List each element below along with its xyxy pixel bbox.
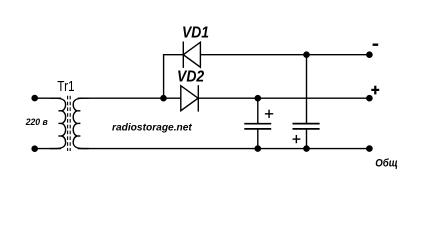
label plus xyxy=(371,86,379,95)
capacitor C2 plates xyxy=(293,124,320,129)
svg-text:Tr1: Tr1 xyxy=(57,79,74,95)
transformer Tr1 secondary winding xyxy=(73,98,89,148)
terminal dot common xyxy=(366,145,373,152)
capacitor C1 plates xyxy=(244,124,271,129)
terminal dot minus xyxy=(366,51,373,58)
wire middle rail VD2 to plus terminal xyxy=(198,97,369,99)
capacitor C2 polarity plus xyxy=(293,135,301,143)
wire vertical riser node A to top rail xyxy=(164,55,184,98)
capacitor C1 polarity plus xyxy=(265,110,273,118)
svg-text:Общ: Общ xyxy=(375,158,398,170)
svg-text:VD1: VD1 xyxy=(182,24,209,41)
diode VD1 xyxy=(183,42,200,68)
svg-text:VD2: VD2 xyxy=(177,69,205,86)
wire top rail VD1 to minus terminal xyxy=(200,54,369,56)
terminal dot 220V top xyxy=(31,95,38,102)
capacitor C1 bottom lead xyxy=(257,129,259,149)
terminal dot 220V bottom xyxy=(31,145,38,152)
transformer core xyxy=(68,96,71,151)
wire primary top lead xyxy=(35,97,61,99)
wire bottom rail xyxy=(78,148,370,150)
capacitor C2 bottom lead xyxy=(306,129,308,149)
capacitor C1 top junction dot xyxy=(254,95,261,102)
diode VD2 xyxy=(181,85,199,111)
capacitor C2 bottom junction dot xyxy=(303,145,310,152)
capacitor C2 top junction dot xyxy=(303,51,310,58)
terminal dot plus xyxy=(366,95,373,102)
capacitor C2 top lead xyxy=(306,55,308,124)
wire primary bottom lead xyxy=(35,148,61,150)
svg-text:radiostorage.net: radiostorage.net xyxy=(112,122,192,133)
capacitor C1 top lead xyxy=(257,98,259,124)
svg-text:220 в: 220 в xyxy=(25,117,48,128)
capacitor C1 bottom junction dot xyxy=(254,145,261,152)
wire secondary top lead to node A xyxy=(78,97,164,99)
transformer Tr1 primary winding xyxy=(50,98,66,148)
node A junction dot xyxy=(160,95,167,102)
label minus xyxy=(373,44,379,46)
wire node A to VD2 anode xyxy=(164,97,181,99)
